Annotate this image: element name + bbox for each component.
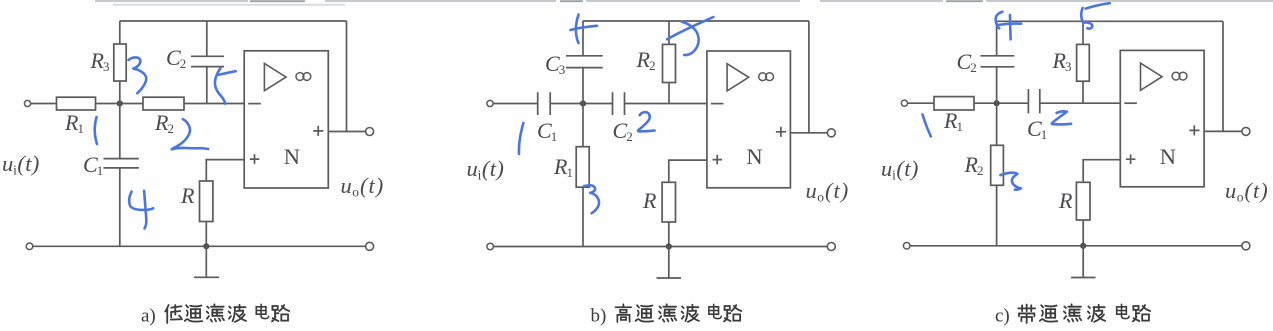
wire R2 to bottom rail (c) <box>996 185 998 246</box>
op-amp U2 box <box>707 51 791 188</box>
bottom-left terminal c <box>903 243 910 250</box>
resistor R1 (c) <box>934 97 974 110</box>
wire node down to R2 (c) <box>996 103 998 145</box>
wire C2 bottom plate to node (c) <box>996 67 998 103</box>
wire R1 to bottom rail (b) <box>582 187 584 246</box>
handwritten mark 2 (right of C1 c) <box>1052 111 1071 124</box>
svg-text:C1: C1 <box>1027 116 1047 142</box>
wire C3 bottom plate to node <box>582 68 584 104</box>
op-amp U2 inverting pin mark <box>711 103 724 105</box>
resistor R2 <box>143 97 184 110</box>
svg-text:N: N <box>284 144 300 169</box>
blue pen annotations over circuit c <box>923 3 1110 190</box>
top feedback rail b <box>583 20 809 22</box>
bottom-left terminal a <box>26 243 33 250</box>
wire input to R1 (c) <box>908 102 934 104</box>
resistor R3 <box>114 44 126 81</box>
wire input to C1 (b) <box>493 103 537 105</box>
op-amp U1 infinity gain mark <box>296 73 304 81</box>
bottom-right terminal b <box>827 243 835 251</box>
bottom junction dot b <box>666 243 672 249</box>
svg-text:R: R <box>1058 188 1073 213</box>
caption a) 低通滤波电路 <box>141 304 289 326</box>
op-amp U1 box <box>244 51 328 188</box>
op-amp U3 infinity gain mark <box>1172 72 1180 80</box>
op-amp U2 triangle <box>727 64 749 91</box>
wire node down to R1 (b) <box>582 104 584 147</box>
wire R2 to op-amp inverting input <box>184 103 244 105</box>
wire R3 to top rail <box>119 21 121 44</box>
bottom rail b <box>494 246 828 248</box>
top feedback rail c <box>997 20 1223 22</box>
wire input to R1 <box>31 103 57 105</box>
handwritten mark 3 (right of R3) <box>129 57 147 93</box>
wire node down to C1 <box>119 104 121 159</box>
svg-text:uo(t): uo(t) <box>341 173 385 200</box>
wire C1 to op-amp inverting input (c) <box>1040 102 1121 104</box>
handwritten mark 5 (on rail above R2 b) <box>667 17 713 39</box>
handwritten mark 4 (on rail left end b) <box>576 15 579 44</box>
handwritten mark 4 (below C1) <box>129 192 153 210</box>
capacitor C2 (c) <box>981 56 1015 67</box>
wire rail to C2 top plate <box>206 21 208 56</box>
node junction (b) <box>580 100 586 106</box>
svg-text:C1: C1 <box>537 118 557 144</box>
resistor R (b) <box>662 182 675 222</box>
feedback wire down to output <box>346 21 348 132</box>
output terminal a <box>366 128 374 136</box>
svg-text:a): a) <box>141 306 156 327</box>
svg-text:R: R <box>642 188 657 213</box>
handwritten mark 2 (below R2) <box>172 119 208 149</box>
svg-text:R2: R2 <box>154 110 174 136</box>
svg-text:R: R <box>180 183 195 208</box>
feedback wire down to output (c) <box>1222 21 1224 131</box>
svg-text:ui(t): ui(t) <box>881 156 919 183</box>
svg-text:R1: R1 <box>64 110 84 136</box>
wire C2 bottom plate to inverting wire <box>206 67 208 104</box>
faint scan artifacts along top edge (cropped row above) <box>95 0 1273 2</box>
svg-text:C1: C1 <box>83 152 103 178</box>
wire node to R3 <box>119 81 121 104</box>
resistor R3 (c) <box>1077 44 1090 81</box>
bottom junction dot c <box>1080 243 1086 249</box>
op-amp U2 non-inverting pin mark <box>713 155 723 165</box>
wire R1 to node <box>96 103 144 105</box>
wire R to bottom rail (c) <box>1082 220 1084 246</box>
op-amp U1 inverting pin mark <box>248 103 261 105</box>
capacitor C1 <box>104 159 139 168</box>
wire R3 down to inverting wire (c) <box>1082 81 1084 103</box>
op-amp U3 non-inverting pin mark <box>1126 154 1136 164</box>
feedback wire down to output (b) <box>808 21 810 133</box>
output wire c <box>1204 130 1242 132</box>
input terminal c <box>901 100 907 106</box>
op-amp U3 box <box>1120 50 1204 186</box>
resistor R (a) <box>200 181 213 222</box>
svg-text:C3: C3 <box>545 51 565 77</box>
wire non-inverting input to R <box>206 160 244 181</box>
capacitor C2 <box>191 56 224 66</box>
svg-text:b): b) <box>591 306 607 327</box>
handwritten mark 5 (on rail above R3 c) <box>1086 3 1110 8</box>
output wire a <box>328 131 365 133</box>
handwritten mark 1 (below R1 c) <box>923 115 931 137</box>
capacitor C2 (b) <box>613 92 625 115</box>
wire R2 down to inverting wire (b) <box>668 83 670 104</box>
wire rail to R3 (c) <box>1082 21 1084 44</box>
capacitor C3 <box>566 56 603 68</box>
svg-text:R3: R3 <box>90 48 110 74</box>
op-amp U1 output plus mark <box>313 126 323 136</box>
ground (b) <box>657 247 682 279</box>
handwritten mark 5 (below C2) <box>219 71 236 75</box>
wire C1 to node (b) <box>550 103 612 105</box>
top feedback rail a <box>120 20 347 22</box>
resistor R2 (c) <box>991 145 1004 185</box>
caption b) 高通滤波电路 <box>591 304 742 326</box>
handwritten mark 1 (near R1) <box>95 117 97 144</box>
node junction (c) <box>994 100 1000 106</box>
resistor R2 (b) <box>663 44 676 82</box>
op-amp U3 output plus mark <box>1189 125 1199 135</box>
svg-text:R3: R3 <box>1052 48 1072 74</box>
bottom rail c <box>910 245 1242 247</box>
svg-text:R1: R1 <box>553 154 573 180</box>
op-amp U2 infinity gain mark <box>759 73 767 81</box>
svg-text:uo(t): uo(t) <box>1225 178 1269 205</box>
svg-text:c): c) <box>995 306 1010 327</box>
svg-text:N: N <box>1160 144 1176 169</box>
wire R to bottom rail <box>205 222 207 247</box>
op-amp U1 triangle <box>264 64 286 91</box>
handwritten mark 2 (right of C2 b) <box>638 112 655 131</box>
op-amp U2 output plus mark <box>776 127 786 137</box>
input terminal b <box>487 100 493 106</box>
resistor R1 <box>57 97 96 110</box>
wire rail to C2 top plate (c) <box>996 21 998 56</box>
wire R to bottom rail (b) <box>668 222 670 247</box>
svg-text:R2: R2 <box>636 47 656 73</box>
wire R1 to node (c) <box>974 102 1028 104</box>
bottom junction dot a <box>203 243 209 249</box>
handwritten mark 4 (on rail left end c) <box>996 12 1003 29</box>
capacitor C1 (c) <box>1028 89 1039 113</box>
wire rail to R2 (b) <box>668 21 670 44</box>
bottom-left terminal b <box>487 243 494 250</box>
handwritten mark 3 (right of R1 b) <box>584 185 599 213</box>
bottom-right terminal c <box>1242 242 1250 250</box>
resistor R (c) <box>1076 182 1090 220</box>
svg-text:ui(t): ui(t) <box>467 156 505 183</box>
handwritten mark 1 (left of C1 b) <box>519 123 523 154</box>
op-amp U3 inverting pin mark <box>1124 102 1137 104</box>
node junction (inverting input net) <box>117 100 123 106</box>
output terminal b <box>827 129 835 137</box>
op-amp U1 non-inverting pin mark <box>250 154 259 164</box>
input terminal a <box>24 100 30 106</box>
svg-text:ui(t): ui(t) <box>2 151 40 178</box>
blue pen annotations over circuit b <box>519 15 713 214</box>
ground (a) <box>194 246 219 277</box>
svg-text:R2: R2 <box>964 152 984 178</box>
wire non-inverting input to R (c) <box>1083 160 1120 183</box>
svg-text:R1: R1 <box>943 108 963 134</box>
svg-text:N: N <box>746 144 762 169</box>
caption c) 带通滤波电路 <box>995 304 1150 326</box>
bottom rail a <box>33 245 366 247</box>
svg-text:uo(t): uo(t) <box>806 178 850 205</box>
op-amp U3 triangle <box>1141 63 1163 90</box>
wire rail to C3 top plate <box>582 21 584 56</box>
ground (c) <box>1071 246 1096 278</box>
bottom-right terminal a <box>366 242 374 250</box>
wire non-inverting input to R (b) <box>669 160 707 182</box>
svg-text:C2: C2 <box>166 45 186 71</box>
svg-text:C2: C2 <box>957 49 977 75</box>
svg-text:C2: C2 <box>613 118 633 144</box>
blue pen annotations over circuit a <box>95 57 236 228</box>
wire C1 to bottom rail <box>119 168 121 246</box>
wire C2 to op-amp inverting input (b) <box>625 103 707 105</box>
handwritten mark 2 (right of R2 c) <box>1000 173 1021 190</box>
output wire b <box>790 132 827 134</box>
capacitor C1 (b) <box>538 92 551 115</box>
output terminal c <box>1242 127 1250 135</box>
resistor R1 (b) <box>576 147 589 188</box>
